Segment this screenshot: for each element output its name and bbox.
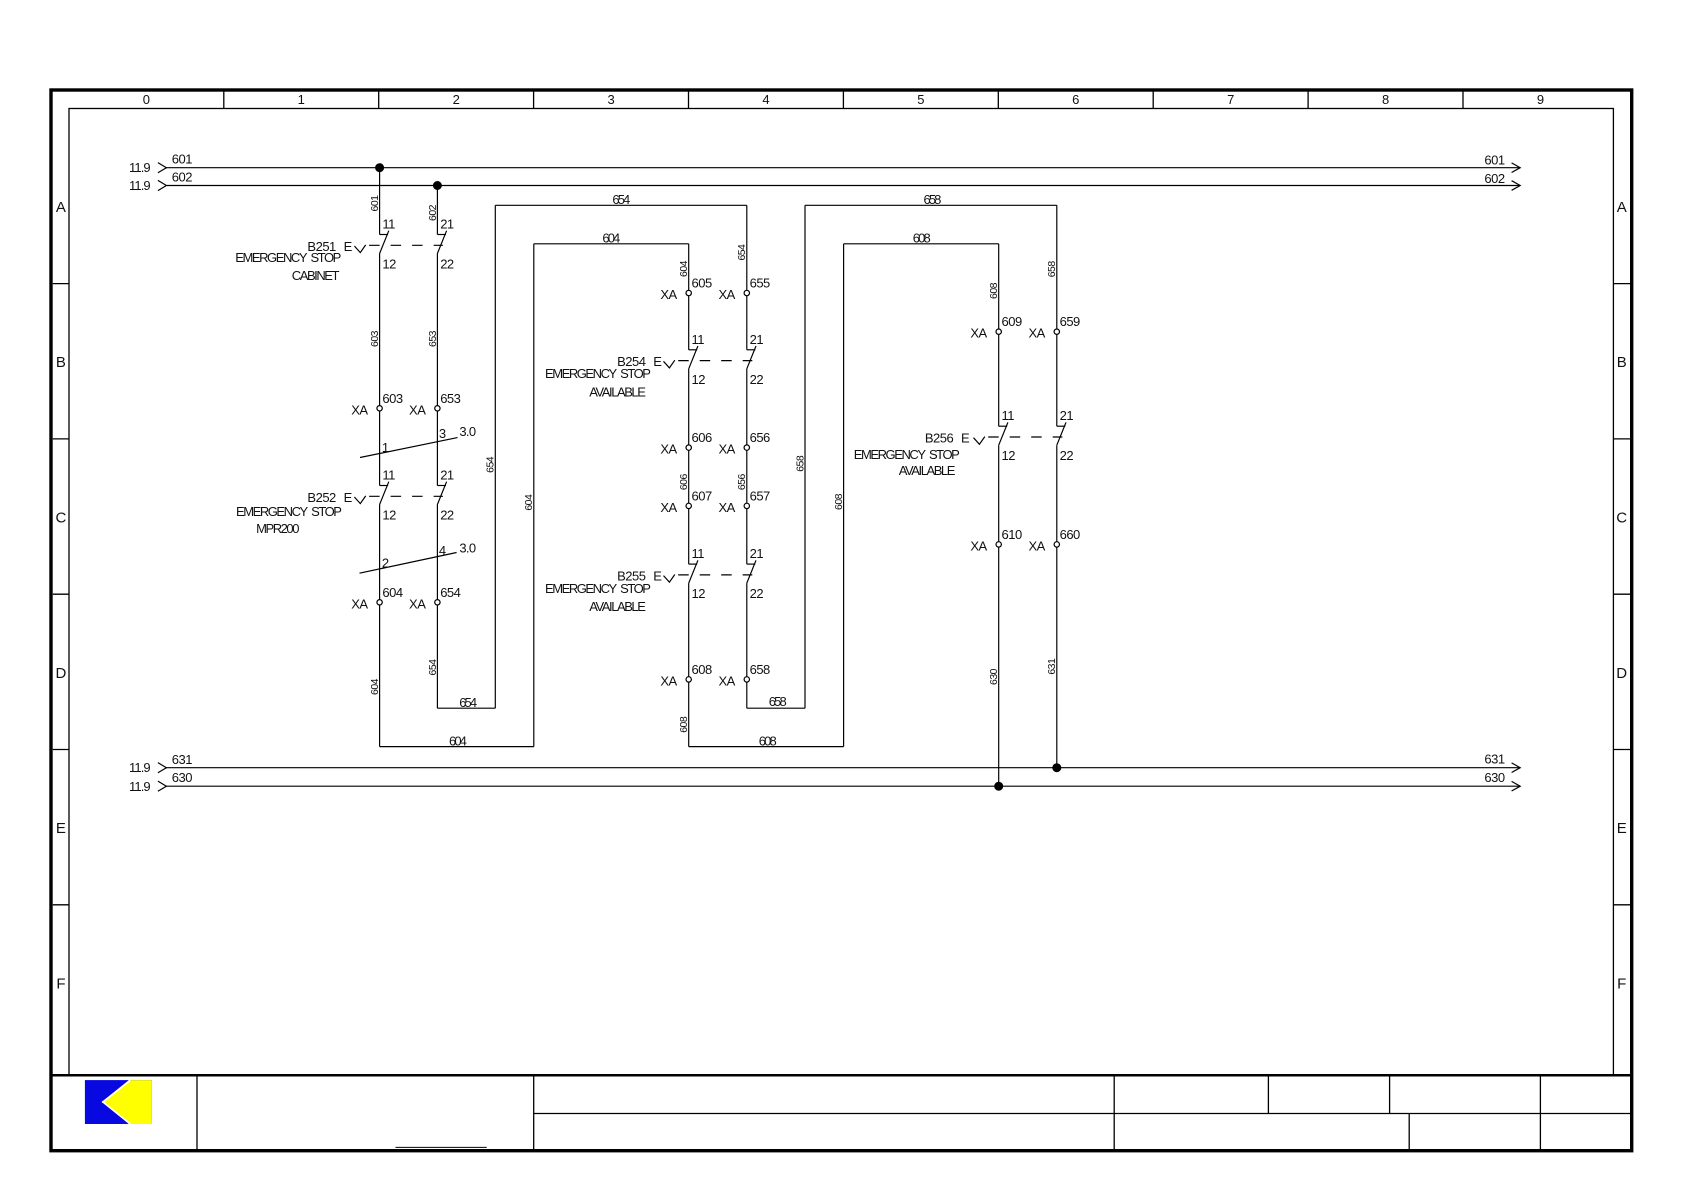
svg-text:C: C — [1616, 510, 1627, 527]
svg-text:655: 655 — [750, 276, 770, 291]
svg-text:D: D — [55, 665, 66, 682]
drawing frame inner border — [69, 109, 1613, 1076]
svg-text:654: 654 — [427, 659, 439, 676]
terminal XA:609 — [996, 329, 1001, 334]
svg-text:6: 6 — [1072, 92, 1079, 107]
svg-text:608: 608 — [678, 716, 690, 733]
svg-text:F: F — [56, 975, 65, 992]
svg-text:AVAILABLE: AVAILABLE — [899, 463, 956, 478]
svg-text:630: 630 — [1484, 770, 1504, 785]
svg-text:XA: XA — [718, 500, 735, 515]
bus line 601 — [166, 167, 1519, 169]
svg-text:XA: XA — [409, 596, 426, 611]
junction dot wire/bus630 — [995, 782, 1003, 790]
svg-text:2: 2 — [382, 555, 389, 570]
svg-text:XA: XA — [718, 673, 735, 688]
svg-text:11: 11 — [692, 332, 705, 347]
svg-text:C: C — [55, 510, 66, 527]
svg-text:XA: XA — [351, 402, 368, 417]
svg-text:XA: XA — [718, 442, 735, 457]
emergency stop switch B252 pole 1 (pins 11-12) — [380, 485, 389, 487]
svg-text:11.9: 11.9 — [129, 160, 150, 175]
wire 601 drop to B251 pin 11 — [379, 168, 381, 235]
svg-text:AVAILABLE: AVAILABLE — [589, 385, 646, 400]
wire 658 riser — [804, 205, 806, 708]
wire 658 segment B255.22 down — [746, 583, 748, 708]
svg-text:605: 605 — [692, 276, 712, 291]
wire 608 riser — [843, 244, 845, 747]
terminal XA:603 — [377, 406, 382, 411]
svg-text:5: 5 — [917, 92, 924, 107]
svg-text:EMERGENCY STOP: EMERGENCY STOP — [545, 366, 650, 381]
svg-text:631: 631 — [172, 752, 192, 767]
svg-text:658: 658 — [750, 662, 770, 677]
svg-text:E: E — [961, 431, 970, 446]
bus line 602 — [166, 185, 1519, 187]
wire 606 segment — [688, 369, 690, 564]
bus 630 right arrow — [1512, 781, 1521, 791]
junction dot bus601/wire — [376, 164, 384, 172]
svg-text:XA: XA — [351, 596, 368, 611]
emergency stop switch B251 pole 2 (pins 21-22) — [437, 234, 446, 236]
junction dot bus602/wire — [433, 182, 441, 190]
svg-text:22: 22 — [1060, 448, 1074, 463]
svg-text:631: 631 — [1484, 752, 1504, 767]
svg-text:XA: XA — [970, 326, 987, 341]
svg-text:AVAILABLE: AVAILABLE — [589, 599, 646, 614]
terminal XA:606 — [686, 445, 691, 450]
B255 emergency-stop actuator symbol — [664, 575, 675, 583]
svg-text:1: 1 — [382, 440, 389, 455]
wire 654 drop to B254 pin 21 — [746, 205, 748, 349]
bus line 631 — [166, 767, 1519, 769]
svg-text:E: E — [344, 239, 353, 254]
svg-text:11.9: 11.9 — [129, 178, 150, 193]
svg-text:601: 601 — [172, 152, 192, 167]
svg-text:608: 608 — [692, 662, 712, 677]
wire 658 drop to B256 pin 21 — [1056, 205, 1058, 426]
wire 654 riser — [494, 205, 496, 708]
svg-text:603: 603 — [369, 330, 381, 347]
svg-text:CABINET: CABINET — [292, 268, 340, 283]
svg-text:12: 12 — [382, 257, 396, 272]
svg-text:A: A — [56, 199, 66, 216]
wire 631 segment B256.22 down to bus 631 — [1056, 445, 1058, 768]
svg-text:XA: XA — [970, 538, 987, 553]
svg-text:21: 21 — [750, 546, 764, 561]
svg-text:603: 603 — [382, 391, 402, 406]
svg-text:B: B — [56, 354, 66, 371]
terminal XA:605 — [686, 290, 691, 295]
wire 603 segment B251.12 to terminal — [379, 254, 381, 486]
svg-text:7: 7 — [1227, 92, 1234, 107]
svg-text:11: 11 — [382, 217, 395, 232]
bus 631 right arrow — [1512, 763, 1521, 773]
svg-text:4: 4 — [762, 92, 769, 107]
svg-text:11.9: 11.9 — [129, 760, 150, 775]
wire 608 top run — [844, 243, 999, 245]
emergency stop switch B256 pole 1 (pins 11-12) — [999, 425, 1008, 427]
svg-text:654: 654 — [459, 695, 477, 710]
emergency stop switch B251 pole 1 (pins 11-12) — [380, 234, 389, 236]
svg-text:654: 654 — [612, 192, 630, 207]
svg-text:12: 12 — [692, 586, 706, 601]
terminal XA:653 — [435, 406, 440, 411]
svg-text:MPR200: MPR200 — [256, 521, 299, 536]
svg-text:604: 604 — [449, 733, 467, 748]
svg-text:XA: XA — [409, 402, 426, 417]
title block top line — [51, 1074, 1632, 1077]
emergency stop switch B252 pole 2 (pins 21-22) — [437, 485, 446, 487]
svg-text:608: 608 — [988, 282, 1000, 299]
svg-text:EMERGENCY STOP: EMERGENCY STOP — [545, 581, 650, 596]
svg-text:660: 660 — [1060, 527, 1080, 542]
wire 658 bottom run — [747, 707, 805, 709]
svg-text:658: 658 — [769, 694, 787, 709]
terminal XA:660 — [1054, 542, 1059, 547]
svg-text:21: 21 — [1060, 408, 1074, 423]
svg-text:XA: XA — [1028, 326, 1045, 341]
terminal XA:604 — [377, 600, 382, 605]
svg-text:XA: XA — [718, 287, 735, 302]
svg-text:0: 0 — [143, 92, 150, 107]
svg-text:E: E — [344, 490, 353, 505]
emergency stop switch B256 pole 2 (pins 21-22) — [1057, 425, 1066, 427]
B256 mechanical link (dashed) — [988, 436, 1062, 438]
B255 mechanical link (dashed) — [678, 574, 752, 576]
company logo — [85, 1080, 152, 1124]
svg-text:654: 654 — [440, 585, 460, 600]
svg-text:11: 11 — [1002, 408, 1015, 423]
svg-text:4: 4 — [439, 543, 446, 558]
svg-text:12: 12 — [692, 372, 706, 387]
wire 608 drop to B256 pin 11 — [998, 244, 1000, 426]
svg-text:630: 630 — [172, 770, 192, 785]
title block mid line — [534, 1113, 1630, 1115]
wire 630 segment B256.12 down to bus 630 — [998, 445, 1000, 786]
wire 653 segment B251.22 to terminal — [436, 254, 438, 486]
svg-text:601: 601 — [369, 195, 381, 212]
svg-text:3.0: 3.0 — [459, 541, 475, 556]
B254 mechanical link (dashed) — [678, 360, 752, 362]
bus line 630 — [166, 785, 1519, 787]
svg-text:609: 609 — [1002, 314, 1022, 329]
svg-text:607: 607 — [692, 488, 712, 503]
svg-text:22: 22 — [750, 372, 764, 387]
svg-text:E: E — [653, 569, 662, 584]
bus 630 source chevron — [158, 781, 167, 791]
svg-text:21: 21 — [440, 217, 454, 232]
terminal XA:608 — [686, 677, 691, 682]
svg-text:601: 601 — [1484, 152, 1504, 167]
svg-text:22: 22 — [750, 586, 764, 601]
svg-text:XA: XA — [660, 500, 677, 515]
svg-text:658: 658 — [1046, 261, 1058, 278]
B252 emergency-stop actuator symbol — [354, 496, 365, 504]
bus 601 right arrow — [1512, 163, 1521, 173]
svg-text:608: 608 — [833, 493, 845, 510]
wire 658 top run — [805, 204, 1057, 206]
wire 602 drop to B251 pin 21 — [436, 186, 438, 235]
svg-text:B: B — [1617, 354, 1627, 371]
svg-text:11: 11 — [382, 468, 395, 483]
svg-text:EMERGENCY STOP: EMERGENCY STOP — [236, 504, 341, 519]
emergency stop switch B254 pole 1 (pins 11-12) — [689, 349, 698, 351]
svg-text:12: 12 — [382, 508, 396, 523]
svg-text:2: 2 — [453, 92, 460, 107]
svg-text:EMERGENCY STOP: EMERGENCY STOP — [854, 447, 959, 462]
svg-text:631: 631 — [1046, 658, 1058, 675]
terminal XA:656 — [744, 445, 749, 450]
wire 654 top run — [495, 204, 747, 206]
svg-text:B252: B252 — [307, 490, 336, 505]
svg-text:656: 656 — [750, 430, 770, 445]
svg-text:3: 3 — [439, 426, 446, 441]
svg-text:21: 21 — [440, 468, 454, 483]
terminal XA:607 — [686, 503, 691, 508]
terminal XA:655 — [744, 290, 749, 295]
emergency stop switch B254 pole 2 (pins 21-22) — [747, 349, 756, 351]
svg-text:8: 8 — [1382, 92, 1389, 107]
svg-text:22: 22 — [440, 257, 454, 272]
emergency stop switch B255 pole 1 (pins 11-12) — [689, 563, 698, 565]
svg-text:22: 22 — [440, 508, 454, 523]
svg-text:656: 656 — [736, 474, 748, 491]
svg-text:657: 657 — [750, 488, 770, 503]
svg-text:3: 3 — [607, 92, 614, 107]
svg-text:EMERGENCY STOP: EMERGENCY STOP — [235, 250, 340, 265]
svg-text:610: 610 — [1002, 527, 1022, 542]
svg-text:654: 654 — [736, 244, 748, 261]
svg-text:3.0: 3.0 — [459, 424, 475, 439]
cable crossing line conductors 1/3, 3.0mm — [360, 438, 458, 458]
svg-text:602: 602 — [1484, 171, 1504, 186]
title block signature underline — [396, 1146, 487, 1148]
svg-text:630: 630 — [988, 668, 1000, 685]
bus 602 source chevron — [158, 180, 167, 190]
svg-text:XA: XA — [660, 287, 677, 302]
emergency stop switch B255 pole 2 (pins 21-22) — [747, 563, 756, 565]
junction dot wire/bus631 — [1053, 764, 1061, 772]
wire 604 riser — [533, 244, 535, 747]
bus 602 right arrow — [1512, 181, 1521, 191]
svg-text:653: 653 — [440, 391, 460, 406]
wire 656 segment — [746, 369, 748, 564]
wire 654 bottom run — [437, 707, 495, 709]
wire 608 bottom run — [689, 746, 844, 748]
bus 631 source chevron — [158, 763, 167, 773]
svg-text:XA: XA — [660, 442, 677, 457]
svg-text:602: 602 — [427, 204, 439, 221]
terminal XA:610 — [996, 542, 1001, 547]
svg-text:A: A — [1617, 199, 1627, 216]
svg-text:654: 654 — [485, 456, 497, 473]
wire 654 segment B252.22 down — [436, 505, 438, 709]
svg-text:9: 9 — [1537, 92, 1544, 107]
svg-text:608: 608 — [759, 733, 777, 748]
wire 608 segment B255.12 down — [688, 583, 690, 747]
svg-text:F: F — [1617, 975, 1626, 992]
wire 604 drop to B254 pin 11 — [688, 244, 690, 350]
row label strips A-F — [53, 283, 69, 285]
svg-text:606: 606 — [678, 474, 690, 491]
wire 604 top run — [534, 243, 689, 245]
svg-text:E: E — [56, 820, 66, 837]
terminal XA:657 — [744, 503, 749, 508]
svg-text:602: 602 — [172, 170, 192, 185]
svg-text:658: 658 — [924, 192, 942, 207]
svg-text:XA: XA — [660, 673, 677, 688]
svg-text:604: 604 — [369, 678, 381, 695]
svg-text:E: E — [1617, 820, 1627, 837]
svg-text:21: 21 — [750, 332, 764, 347]
B254 emergency-stop actuator symbol — [664, 360, 675, 368]
B256 emergency-stop actuator symbol — [974, 437, 985, 445]
terminal XA:658 — [744, 677, 749, 682]
terminal XA:654 — [435, 600, 440, 605]
terminal XA:659 — [1054, 329, 1059, 334]
svg-text:658: 658 — [794, 455, 806, 472]
svg-text:604: 604 — [678, 260, 690, 277]
wire 604 segment B252.12 down — [379, 505, 381, 747]
svg-text:B256: B256 — [925, 431, 954, 446]
svg-text:XA: XA — [1028, 538, 1045, 553]
wire 604 bottom run — [380, 746, 534, 748]
column header strip dividers and numbers — [223, 90, 225, 109]
svg-text:604: 604 — [602, 231, 620, 246]
svg-text:12: 12 — [1002, 448, 1016, 463]
B251 mechanical link (dashed) — [369, 244, 443, 246]
title block vertical dividers — [196, 1075, 198, 1150]
svg-text:606: 606 — [692, 430, 712, 445]
B252 mechanical link (dashed) — [369, 495, 443, 497]
cable crossing line conductors 2/4, 3.0mm — [360, 553, 457, 574]
B251 emergency-stop actuator symbol — [354, 245, 365, 253]
svg-text:1: 1 — [298, 92, 305, 107]
svg-text:653: 653 — [427, 330, 439, 347]
svg-text:D: D — [1616, 665, 1627, 682]
svg-text:604: 604 — [382, 585, 402, 600]
bus 601 source chevron — [158, 163, 167, 173]
svg-text:659: 659 — [1060, 314, 1080, 329]
svg-text:608: 608 — [913, 231, 931, 246]
svg-text:11: 11 — [692, 546, 705, 561]
svg-text:604: 604 — [523, 494, 535, 511]
svg-text:E: E — [653, 354, 662, 369]
svg-text:11.9: 11.9 — [129, 779, 150, 794]
